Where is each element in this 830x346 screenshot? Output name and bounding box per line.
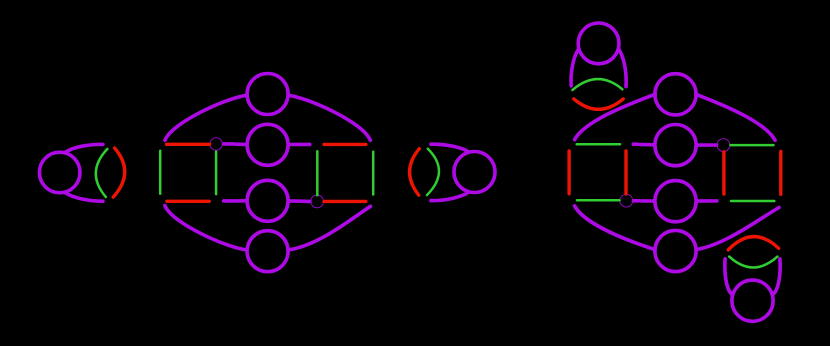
term2 loop circle 1 [247, 74, 288, 115]
term2 node vertex bottom-left of right box [311, 195, 324, 208]
term2 wire left box to circle3 [224, 199, 247, 203]
term4 top tadpole right arc [619, 49, 626, 86]
term2 left box red bottom [167, 200, 209, 203]
term4 top tadpole left arc [571, 49, 578, 85]
term2 right box green left [316, 151, 319, 195]
term3 tadpole circle [454, 152, 495, 193]
term2 left box green right [215, 152, 218, 195]
term1 lens bottom arc [66, 193, 103, 201]
term2 left box red top [167, 143, 210, 146]
term4 left box red left [567, 151, 570, 194]
term4 bottom tadpole red arc [728, 237, 779, 250]
term1 red arc [113, 148, 125, 197]
term4 wire circle2 to vertexTL [696, 143, 716, 147]
term4 bottom tadpole green arc [729, 257, 777, 268]
term1 tadpole circle [39, 152, 80, 193]
term4 top tadpole green arc [572, 79, 622, 90]
term2 loop circle 2 [247, 124, 288, 165]
term4 bottom tadpole left arc [725, 259, 731, 294]
term2 right box red bottom [324, 200, 366, 203]
term4 loop circle 4 [655, 230, 696, 271]
term4 right box red right [779, 152, 782, 195]
term4 wire left box to circle2 [633, 142, 654, 146]
term3 green arc [427, 149, 439, 195]
term2 wire vertexTR to circle2 [224, 142, 247, 146]
term4 wire vertexBR to circle3 [634, 199, 655, 203]
term4 left box green bottom [577, 199, 620, 202]
term2 right box green right [372, 152, 375, 195]
term4 wire circle3 to right box [696, 199, 717, 203]
term4 node vertex top-left of right box [717, 139, 730, 152]
term4 loop circle 2 [655, 125, 696, 166]
term2 outer arc top-left [165, 95, 247, 140]
term4 bottom tadpole circle [732, 280, 773, 321]
term3 lens top arc [431, 144, 469, 152]
term2 wire circle3 to vertexBL [288, 199, 310, 203]
term4 right box green top [731, 144, 774, 147]
term4 node vertex bottom-right of left box [620, 194, 633, 207]
term4 top tadpole circle [578, 23, 619, 64]
term2 right box red top [324, 143, 366, 146]
term4 left box green top [577, 143, 620, 146]
term2 outer arc top-right [288, 95, 370, 140]
term2 left box green left [159, 151, 162, 194]
term1 green arc [96, 149, 108, 197]
term4 loop circle 3 [655, 181, 696, 222]
term2 outer arc bottom-left [165, 206, 247, 250]
term4 bottom tadpole right arc [774, 259, 780, 294]
term4 outer arc top-right [696, 94, 775, 140]
term2 outer arc bottom-right [288, 206, 370, 250]
term4 right box red left [722, 152, 725, 194]
term4 left box red right [624, 151, 627, 194]
term1 lens top arc [66, 144, 103, 152]
term4 loop circle 1 [655, 74, 696, 115]
term3 lens bottom arc [431, 192, 469, 200]
term2 node vertex top-right of left box [210, 138, 222, 150]
term2 loop circle 4 [247, 231, 288, 272]
term4 outer arc bottom-left [575, 206, 655, 250]
term2 wire circle2 to right box [288, 143, 310, 147]
term3 red arc [410, 149, 420, 195]
term2 loop circle 3 [247, 180, 288, 221]
term4 outer arc bottom-right [696, 208, 779, 250]
term4 outer arc top-left [575, 94, 656, 139]
term4 right box green bottom [731, 200, 774, 203]
term4 top tadpole red arc [574, 99, 623, 109]
